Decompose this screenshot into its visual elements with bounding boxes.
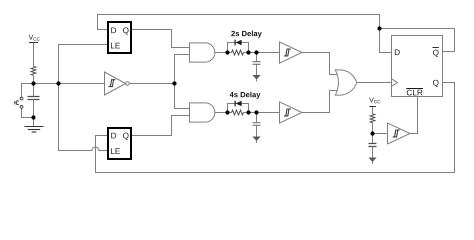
or gate OR1 body xyxy=(335,70,357,95)
junction node F xyxy=(370,131,374,135)
resistor R3 (4s delay) xyxy=(232,110,244,115)
junction 4s delay cap tap xyxy=(254,110,258,114)
wire node A to inverter U2 input xyxy=(34,83,105,85)
wire buffer U4 output to OR1 input B xyxy=(302,91,338,113)
and gate AND2 body xyxy=(190,103,215,122)
buffer U4 (schmitt) body xyxy=(280,102,303,123)
Vcc2 label xyxy=(369,97,374,102)
wire diode D1 branch xyxy=(228,43,249,53)
Vcc2 bar xyxy=(370,106,377,108)
and gate AND1 body xyxy=(190,43,215,62)
Vcc1 bar xyxy=(29,42,38,44)
wire diode D2 branch xyxy=(228,104,249,113)
wire node B to ground GND1 xyxy=(33,118,35,127)
resistor R4 xyxy=(370,114,375,123)
ground GND3 (arrow) xyxy=(252,137,260,142)
wire node A down to capacitor C1 xyxy=(33,84,35,97)
wire node A down to latch U7 LE with hop xyxy=(59,84,109,151)
junction 4s delay left xyxy=(225,110,229,114)
wire node D down to capacitor C2 xyxy=(256,53,258,62)
wire C2 to ground GND2 xyxy=(256,65,258,82)
junction 4s delay right xyxy=(246,110,250,114)
wire inverter U2 output to node C xyxy=(129,83,174,85)
hysteresis glyph U5 xyxy=(393,130,400,137)
wire node C down to AND2 input A xyxy=(175,84,190,109)
diode D2 xyxy=(236,101,242,107)
wire Qbar branch xyxy=(380,29,455,52)
wire latch U7 Q to AND2 input B xyxy=(131,116,190,136)
wire node F to buffer U5 input xyxy=(373,133,388,135)
junction 2s delay cap tap xyxy=(254,50,258,54)
wire node A up to latch U1 LE xyxy=(59,45,109,84)
buffer U3 (schmitt) body xyxy=(280,42,303,63)
diode D1 xyxy=(236,40,242,46)
latch U7 label D xyxy=(111,133,116,139)
latch U1 label LE xyxy=(111,43,120,49)
capacitor C4 xyxy=(369,144,377,147)
wire R3 to buffer U4 input xyxy=(244,112,280,114)
wire node E down to capacitor C3 xyxy=(256,113,258,123)
junction node B xyxy=(31,115,35,119)
switch SW1 contact circles xyxy=(20,97,23,100)
capacitor C3 xyxy=(253,123,261,126)
wire R1 to node A xyxy=(33,75,35,83)
wire OR1 output to U6 clock xyxy=(357,82,392,84)
wire R2 to buffer U3 input xyxy=(244,52,280,54)
junction 2s delay right xyxy=(246,50,250,54)
label 2s Delay xyxy=(231,31,262,38)
flip-flop U6 clock triangle xyxy=(392,79,398,86)
flip-flop U6 label Qbar xyxy=(433,50,439,57)
junction LE branch xyxy=(56,81,60,85)
junction node C xyxy=(172,81,176,85)
wire C3 to ground GND3 xyxy=(256,126,258,144)
flip-flop U6 label D xyxy=(395,49,400,55)
flip-flop U6 label CLR xyxy=(407,90,423,96)
latch U1 label D xyxy=(111,27,116,33)
flip-flop U6 CLR overline xyxy=(406,88,423,90)
capacitor C2 xyxy=(253,62,261,65)
wire feedback net top (Qbar/D to latch U1 D) xyxy=(98,15,392,53)
resistor R2 (2s delay) xyxy=(232,50,244,55)
wire C4 to ground GND4 xyxy=(372,147,374,165)
latch U7 label LE xyxy=(111,148,120,154)
wire Vcc1 to resistor R1 xyxy=(33,43,35,67)
wire buffer U5 output to U6 CLR xyxy=(410,97,418,134)
hysteresis glyph U3 xyxy=(284,49,291,56)
wire node A to switch SW1 top contact xyxy=(22,84,34,98)
capacitor C1 xyxy=(28,97,40,100)
latch U7 label Q xyxy=(123,133,129,140)
junction 2s delay left xyxy=(225,50,229,54)
wire Vcc2 to resistor R4 xyxy=(372,107,374,114)
latch U1 box xyxy=(108,22,131,53)
ground GND1 (earth) xyxy=(25,126,44,128)
resistor R1 xyxy=(31,66,36,75)
flip-flop U6 Qbar overline xyxy=(433,47,439,49)
buffer U5 (schmitt) body xyxy=(388,123,411,144)
hysteresis glyph U4 xyxy=(284,109,291,116)
wire node F down to capacitor C4 xyxy=(372,134,374,144)
wire buffer U3 output to OR1 input A xyxy=(302,53,338,75)
inverter U2 (schmitt) body xyxy=(105,72,126,95)
latch U7 box xyxy=(108,128,131,159)
Vcc1 label xyxy=(29,35,34,40)
ground GND4 (arrow) xyxy=(368,158,376,163)
wire AND1 output to R2 xyxy=(215,52,232,54)
latch U1 label Q xyxy=(123,27,129,34)
wire node C up to AND1 input B xyxy=(175,55,190,84)
wire AND2 output to R3 xyxy=(215,112,232,114)
wire SW1 bottom contact to node B xyxy=(22,108,34,117)
junction node A xyxy=(31,81,35,85)
wire U6 Q to latch U7 D xyxy=(96,83,455,173)
switch SW1 actuator xyxy=(15,101,19,105)
hysteresis glyph U2 xyxy=(109,80,116,87)
wire C1 to node B xyxy=(33,100,35,118)
junction D/Qbar node xyxy=(377,26,381,30)
label 4s Delay xyxy=(230,92,261,99)
wire R4 to node F xyxy=(372,123,374,134)
flip-flop U6 box xyxy=(392,36,443,97)
wire latch U1 Q to AND1 input A xyxy=(131,30,190,48)
ground GND2 (arrow) xyxy=(252,75,260,80)
inverter U2 bubble xyxy=(126,82,130,86)
flip-flop U6 label Q xyxy=(433,80,439,87)
